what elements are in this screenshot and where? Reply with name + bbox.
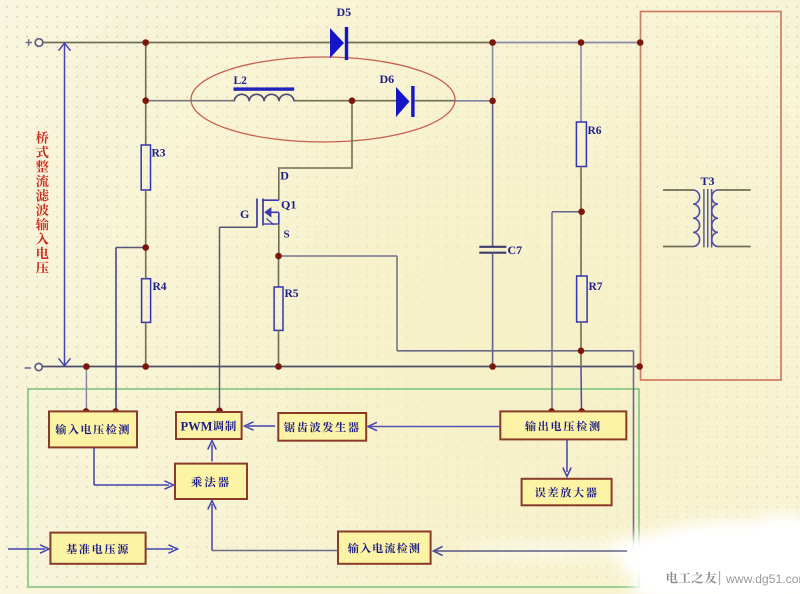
svg-text:PWM: PWM xyxy=(181,420,213,434)
svg-text:Q1: Q1 xyxy=(281,198,296,212)
svg-text:T3: T3 xyxy=(701,174,715,188)
svg-text:D5: D5 xyxy=(337,5,352,19)
svg-text:www.dg51.com: www.dg51.com xyxy=(725,572,800,586)
svg-text:G: G xyxy=(240,207,249,221)
svg-text:C7: C7 xyxy=(508,243,523,257)
svg-text:R5: R5 xyxy=(285,288,299,300)
svg-text:D: D xyxy=(280,169,289,183)
svg-text:R3: R3 xyxy=(152,148,166,160)
svg-text:L2: L2 xyxy=(234,75,248,87)
svg-text:R4: R4 xyxy=(153,281,167,293)
svg-text:D6: D6 xyxy=(380,72,395,86)
svg-text:R6: R6 xyxy=(588,125,602,137)
svg-text:R7: R7 xyxy=(589,281,603,293)
svg-text:S: S xyxy=(284,229,290,241)
